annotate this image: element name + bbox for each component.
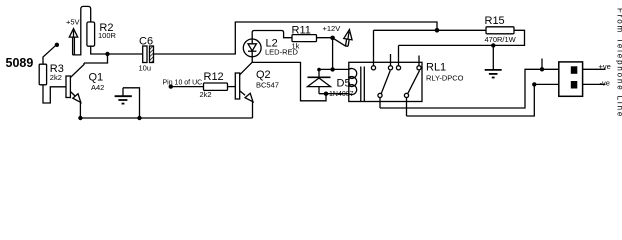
node -ve junction bbox=[532, 82, 536, 86]
power +5V bbox=[66, 17, 80, 55]
transistor Q1 bbox=[66, 63, 104, 102]
relay pole 2 bbox=[404, 71, 419, 116]
wire stub above +ve node bbox=[541, 59, 543, 70]
node rail/Q1 emitter junction bbox=[78, 116, 82, 120]
node rail/ground junction bbox=[137, 116, 141, 120]
relay coil bbox=[349, 67, 365, 102]
svg-text:Pin 10 of UC: Pin 10 of UC bbox=[163, 79, 203, 86]
svg-text:+5V: +5V bbox=[66, 17, 80, 26]
node Pin 10 of UC bbox=[163, 79, 203, 89]
diode D5 bbox=[308, 69, 351, 93]
node open contact dot bbox=[55, 43, 59, 47]
node R15 left junction bbox=[435, 28, 440, 33]
svg-text:470R/1W: 470R/1W bbox=[485, 35, 517, 44]
wire -ve out bbox=[583, 83, 606, 85]
connector terminal block bbox=[559, 62, 583, 96]
wire ground to rail bbox=[123, 88, 140, 118]
wire relay pole2 to -ve bbox=[407, 84, 559, 116]
node +ve junction bbox=[540, 67, 544, 71]
svg-text:A42: A42 bbox=[91, 83, 104, 92]
resistor R12 bbox=[200, 71, 228, 99]
svg-text:Q1: Q1 bbox=[89, 71, 104, 83]
wire Q1 emitter to rail bbox=[79, 102, 81, 119]
relay pole 1 bbox=[378, 71, 390, 108]
svg-text:RLY-DPCO: RLY-DPCO bbox=[426, 74, 464, 83]
capacitor C6 bbox=[139, 35, 154, 72]
wire top rail to contact c1 bbox=[374, 29, 438, 31]
wire +ve out bbox=[583, 68, 606, 70]
wire +12V node down to coil wire bbox=[332, 38, 334, 70]
wire C6 to riser to top rail bbox=[154, 22, 438, 54]
wire R2 bottom to node bbox=[91, 46, 143, 54]
resistor R2 bbox=[87, 22, 117, 46]
node ground junction bbox=[491, 43, 495, 47]
svg-text:+12V: +12V bbox=[323, 24, 341, 33]
svg-text:Q2: Q2 bbox=[256, 69, 271, 81]
relay contact c3 bbox=[396, 45, 400, 70]
svg-text:From Telephone Line: From Telephone Line bbox=[616, 8, 622, 118]
wire relay pole1 to +ve bbox=[380, 69, 559, 108]
svg-text:2k2: 2k2 bbox=[50, 73, 62, 82]
wire R12 to Q2 base bbox=[228, 86, 236, 88]
relay contact c2 stub bbox=[388, 54, 392, 70]
node R2/Q1/C6 junction bbox=[105, 52, 109, 56]
wire D5 top / coil top bbox=[319, 68, 349, 70]
wire Q1 collector to node bbox=[84, 54, 108, 63]
resistor R15 bbox=[485, 15, 517, 44]
power +12V bbox=[323, 24, 354, 47]
ground (left) bbox=[115, 88, 132, 104]
node D5 top junction bbox=[317, 68, 321, 72]
svg-text:1k: 1k bbox=[292, 42, 300, 51]
svg-text:100R: 100R bbox=[98, 31, 117, 40]
relay contact c4 stub bbox=[417, 56, 421, 70]
wire pin10 to R12 bbox=[171, 86, 204, 88]
svg-text:R15: R15 bbox=[485, 15, 505, 27]
svg-text:5089: 5089 bbox=[6, 56, 34, 70]
svg-text:BC547: BC547 bbox=[256, 80, 279, 89]
LED L2 bbox=[243, 37, 298, 57]
resistor R3 bbox=[39, 63, 64, 85]
wire down to ground bbox=[492, 45, 494, 69]
node +12V junction bbox=[330, 36, 335, 41]
relay RL1 box bbox=[349, 61, 464, 101]
svg-text:10u: 10u bbox=[139, 63, 152, 72]
wire Q2 emitter to rail bbox=[252, 101, 254, 118]
svg-text:+ve: +ve bbox=[599, 62, 611, 71]
node D5 bottom junction bbox=[324, 92, 328, 96]
svg-text:2k2: 2k2 bbox=[200, 90, 212, 99]
relay contact c1 bbox=[371, 30, 375, 70]
svg-text:R12: R12 bbox=[204, 71, 224, 83]
wire node to R15 bbox=[437, 29, 486, 31]
wire +5V loop over to R2 top bbox=[74, 6, 90, 55]
resistor R11 bbox=[292, 24, 317, 50]
wire D5 bottom to coil bottom bbox=[319, 93, 349, 95]
wire LED bottom / Q2 collector node across bbox=[252, 57, 326, 101]
wire emitter ground rail bbox=[80, 117, 252, 119]
svg-text:-ve: -ve bbox=[600, 78, 610, 87]
ground (right) bbox=[485, 70, 502, 78]
svg-text:RL1: RL1 bbox=[426, 61, 446, 73]
transistor Q2 bbox=[235, 62, 279, 101]
wire R3 bottom to Q1 base bbox=[43, 85, 66, 103]
wire R15 loop back to contact c3 bbox=[399, 30, 525, 45]
wire LED top to R11 bbox=[252, 31, 292, 40]
wire switch stub from R3 top bbox=[43, 46, 55, 64]
wire R11 to +12V node bbox=[317, 37, 333, 39]
node coil-top junction bbox=[330, 67, 334, 71]
